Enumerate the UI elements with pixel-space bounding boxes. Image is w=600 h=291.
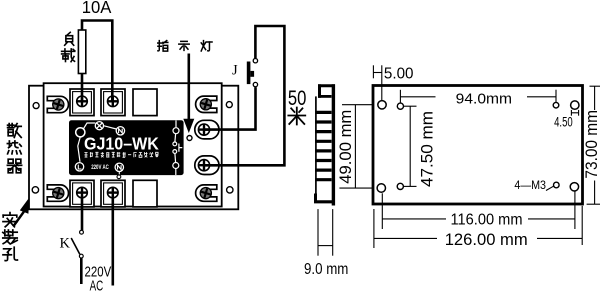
dimension 49.00 mm	[339, 105, 372, 188]
svg-text:126.00 mm: 126.00 mm	[445, 230, 528, 249]
mounting hole top-left	[33, 103, 39, 109]
svg-text:4—M3: 4—M3	[514, 178, 546, 192]
svg-text:220V AC: 220V AC	[91, 164, 109, 171]
wire fuse loop to terminals 1,2	[82, 21, 112, 102]
hole A1 (top-left corner)	[378, 101, 386, 109]
arrow to indicator	[188, 54, 191, 120]
dimension 9.0 mm	[318, 209, 333, 256]
arrow to mounting hole	[13, 212, 24, 227]
N symbol top on label	[116, 127, 124, 135]
company name row (simulated tiny text)	[84, 152, 87, 157]
dimension 126.00 mm	[374, 206, 582, 248]
svg-text:49.00 mm: 49.00 mm	[336, 110, 355, 184]
label wires	[83, 123, 116, 129]
wire terminal5 to K switch	[81, 196, 84, 231]
svg-text:J: J	[232, 63, 238, 79]
mounting hole top-right	[226, 102, 232, 108]
terminal 3 (right top)	[195, 120, 219, 139]
N symbol bottom on label	[115, 163, 123, 171]
terminal circle on label	[76, 128, 85, 137]
svg-text:50: 50	[288, 86, 307, 110]
svg-text:GJ10–WK: GJ10–WK	[84, 133, 159, 153]
hole B1 (bottom-left corner)	[377, 184, 385, 192]
pushbutton J contacts	[253, 82, 257, 86]
fuse 10A	[78, 30, 85, 74]
dimension 94.0mm	[400, 90, 556, 103]
K contact 2	[79, 254, 83, 258]
hole A2 (col2 top)	[397, 103, 403, 109]
wire fuse bottom to terminal 1	[81, 73, 84, 102]
svg-text:116.00 mm: 116.00 mm	[451, 211, 523, 228]
terminal 5 (bottom)	[70, 180, 94, 207]
plate outline rear view	[373, 86, 583, 205]
svg-text:47.50 mm: 47.50 mm	[418, 111, 437, 187]
hole A3 (col3 top)	[553, 102, 559, 108]
svg-text:K: K	[60, 236, 71, 252]
terminal 2 (top)	[101, 89, 125, 116]
dimension 4.50	[571, 110, 578, 116]
lamp symbol on label	[95, 122, 103, 130]
svg-text:73.00 mm: 73.00 mm	[582, 110, 600, 179]
hole A4 (top-right corner)	[571, 101, 579, 109]
dimension 116.00 mm	[382, 192, 575, 230]
mounting tab screw bottom-left	[47, 185, 68, 201]
svg-text:5.00: 5.00	[384, 66, 414, 83]
dimension 73.00 mm	[587, 86, 600, 204]
hole B4 (bottom-right corner)	[570, 183, 578, 191]
L symbol on label	[75, 163, 83, 171]
heatsink profile side view	[314, 84, 335, 205]
svg-text:4.50: 4.50	[554, 115, 573, 130]
blank pad bottom	[133, 180, 157, 207]
wire terminal3 to pushbutton J	[204, 87, 256, 129]
terminal 6 (bottom)	[101, 180, 125, 207]
mounting tab screw bottom-right	[196, 185, 217, 201]
terminal 4 (right bottom)	[195, 156, 219, 175]
terminal 1 (top)	[70, 89, 94, 116]
svg-text:94.0mm: 94.0mm	[456, 91, 512, 107]
wire K to bottom	[80, 258, 83, 284]
dimension 47.50 mm	[404, 106, 417, 186]
pushbutton J actuator	[247, 62, 251, 85]
mounting hole bottom-right	[227, 187, 233, 193]
K contact 1	[80, 230, 84, 234]
hole B2 (col2 bottom)	[397, 183, 403, 189]
label 散热器 (heat sink)	[8, 124, 22, 138]
relay label plate GJ10-WK	[69, 120, 184, 175]
mounting hole bottom-left	[32, 187, 38, 193]
indicator LED	[187, 136, 192, 141]
wire terminal6 to bottom	[112, 196, 115, 286]
50 m wire loop	[204, 26, 284, 165]
pushbutton symbol on label right	[173, 120, 183, 175]
hole B3 (4-M3 hole)	[554, 182, 560, 188]
dimension 5.00	[373, 65, 381, 100]
label 安装孔 (mounting hole)	[3, 213, 17, 227]
svg-text:9.0 mm: 9.0 mm	[304, 261, 348, 278]
relay body	[44, 83, 222, 206]
label 负载 (load)	[65, 32, 74, 45]
switch on label left	[78, 137, 81, 162]
svg-text:10A: 10A	[82, 0, 112, 17]
blank pad top	[133, 89, 157, 116]
tiny terminal below label	[118, 172, 120, 175]
heatsink base plate	[29, 86, 238, 210]
svg-text:AC: AC	[90, 278, 104, 291]
K switch blade	[71, 238, 80, 254]
label 指示灯 (indicator light)	[158, 41, 168, 52]
mounting tab screw top-right	[196, 96, 217, 112]
mounting tab screw top-left	[47, 96, 68, 112]
